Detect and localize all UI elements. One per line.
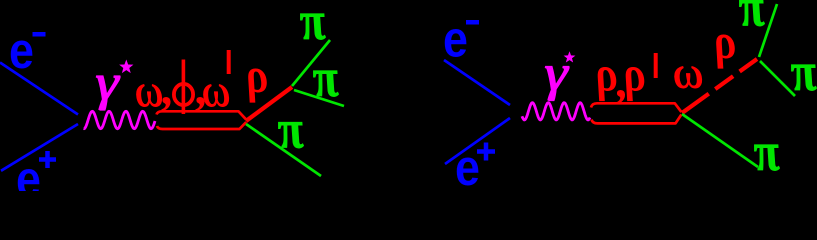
photon wavy line (left) [84,111,156,128]
vector meson double line (left) [157,111,247,129]
photon wavy line (right) [522,103,590,120]
svg-text:γ: γ [96,54,121,111]
rho prime tick (right label) [654,53,658,78]
superscript plus of e+ (right) [477,143,495,161]
svg-text:e: e [16,152,41,191]
omega prime tick (left label) [227,50,231,74]
pion line from main vertex down (right) [682,114,758,167]
superscript minus of e- (right) [466,20,479,25]
superscript plus of e+ (left) [39,151,56,168]
pion line from secondary vertex right (right) [760,61,795,96]
pion line from secondary vertex up (left) [292,40,330,86]
electron line e- (right) [444,60,510,105]
omega meson dashed line (right) [682,59,757,113]
svg-text:e: e [455,140,480,191]
star superscript of gamma (left) [119,60,133,74]
vector meson double line (right) [591,103,681,123]
pion line from main vertex down (left) [246,124,321,176]
phi bowl (left label) [174,84,193,105]
svg-text:e: e [9,23,34,79]
pion line from secondary vertex right (left) [294,90,344,106]
svg-text:γ: γ [545,44,570,101]
svg-text:e: e [443,12,468,68]
superscript minus of e- (left) [33,32,46,37]
positron line e+ (left) [1,124,78,171]
phi tall stroke (left label) [182,60,186,115]
pion line from secondary vertex up (right) [759,4,777,57]
svg-text:,: , [161,62,175,115]
positron line e+ (right) [445,118,510,164]
electron line e- (left) [0,63,78,115]
star superscript of gamma (right) [564,51,576,62]
rho meson line (left, solid) [246,87,292,121]
